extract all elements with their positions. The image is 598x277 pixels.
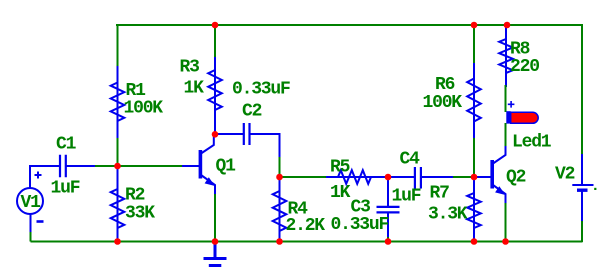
resistor R7 leads [473, 177, 475, 242]
wire Q2 emitter to bottom rail [505, 202, 507, 242]
wire left rail lower (R1 to C1 node) [117, 137, 119, 167]
wire C4 to node B [452, 176, 474, 178]
transistor Q2 emitter [493, 185, 506, 203]
svg-text:220: 220 [510, 57, 539, 77]
resistor R3 zigzag [208, 70, 222, 110]
wire C2 corner to R4 node [279, 156, 281, 178]
resistor R4 leads [279, 177, 281, 242]
svg-text:V1: V1 [21, 193, 42, 213]
svg-text:R2: R2 [125, 186, 145, 206]
svg-text:C1: C1 [56, 135, 77, 155]
transistor Q2 emitter arrow [495, 186, 505, 195]
wire bottom rail [31, 241, 583, 243]
transistor Q1 emitter [201, 175, 215, 194]
Led1 body [511, 112, 539, 123]
ground symbol [204, 242, 227, 266]
resistor R6 leads [473, 63, 475, 138]
resistor R5 leads [326, 176, 388, 178]
battery V2 short plate [577, 188, 588, 191]
resistor R6 zigzag [467, 79, 481, 122]
junction top R8 [504, 22, 511, 29]
capacitor C2 right lead [250, 134, 280, 157]
Led1 flange [506, 111, 510, 123]
svg-text:R7: R7 [430, 184, 450, 204]
resistor R2 zigzag [111, 189, 125, 228]
svg-text:Q2: Q2 [506, 168, 526, 188]
wire left rail upper (top rail to R1) [117, 24, 119, 67]
voltage source V1 circle [17, 188, 43, 214]
wire node A to Q1 base [118, 165, 184, 167]
transistor Q2 base lead [474, 176, 491, 178]
wire R3 top (top rail to R3) [214, 25, 216, 58]
svg-text:Led1: Led1 [512, 133, 552, 153]
svg-text:C2: C2 [242, 102, 262, 122]
junction R3/C2/Q1 collector [212, 131, 219, 138]
svg-text:0.33uF: 0.33uF [331, 215, 389, 235]
junction bottom R4 [276, 238, 283, 245]
resistor R4 zigzag [273, 191, 287, 231]
svg-text:R6: R6 [435, 75, 455, 95]
transistor Q1 collector [201, 134, 214, 154]
svg-text:1K: 1K [184, 79, 205, 99]
svg-text:33K: 33K [125, 204, 155, 224]
V1 minus sign [37, 220, 44, 223]
wire top rail [116, 24, 583, 26]
capacitor C3 plates [377, 207, 400, 213]
battery V2 top lead [581, 154, 583, 184]
svg-text:V2: V2 [555, 165, 575, 185]
junction C2/R4/R5 [276, 174, 283, 181]
resistor R8 leads [505, 25, 507, 87]
resistor R1 leads [117, 66, 119, 138]
wire Led1 to Q2 collector [505, 123, 507, 147]
capacitor C4 left lead [388, 176, 415, 178]
resistor R2 leads [117, 166, 119, 242]
svg-text:Q1: Q1 [216, 157, 237, 177]
wire R8 top lead from top rail [505, 25, 507, 40]
transistor Q1 base lead [182, 165, 199, 167]
svg-text:R3: R3 [180, 58, 200, 78]
resistor R1 zigzag [111, 83, 125, 122]
wire R6 to node B [473, 137, 475, 178]
svg-text:100K: 100K [423, 93, 463, 113]
battery V2 tick mark [594, 188, 596, 190]
capacitor C1 right lead [66, 165, 95, 167]
capacitor C1 plates [60, 155, 66, 177]
svg-text:R5: R5 [330, 158, 350, 178]
junction bottom C3 [385, 238, 392, 245]
resistor R8 zigzag [499, 39, 513, 73]
svg-text:1K: 1K [330, 183, 351, 203]
svg-text:1uF: 1uF [392, 187, 421, 207]
capacitor C2 plates [244, 123, 250, 145]
wire C3 to bottom rail [387, 236, 389, 242]
svg-text:2.2K: 2.2K [286, 216, 326, 236]
V1 plus sign [35, 172, 42, 179]
Led1 plus sign [508, 101, 515, 108]
junction node A (C1/R1/R2/base) [114, 163, 121, 170]
svg-text:0.33uF: 0.33uF [232, 80, 290, 100]
resistor R5 zigzag [338, 170, 371, 184]
junction node B (C4/R6/R7/Q2 base) [471, 174, 478, 181]
wire C1 to node A [94, 165, 118, 167]
capacitor C3 top lead [387, 177, 389, 206]
resistor R7 zigzag [467, 193, 481, 228]
capacitor C4 right lead [421, 176, 453, 178]
junction top R6 [471, 22, 478, 29]
wire R4 node to R5 [280, 176, 328, 178]
battery V2 long plate [572, 184, 593, 186]
wire V1 bottom corner [30, 232, 32, 242]
capacitor C2 left lead [215, 133, 243, 135]
svg-text:3.3K: 3.3K [428, 205, 468, 225]
V1 top lead [30, 166, 60, 188]
junction R5/C3/C4 [385, 174, 392, 181]
svg-text:1uF: 1uF [51, 179, 80, 199]
junction top R3 [212, 22, 219, 29]
wire Q1 emitter to bottom rail [214, 193, 216, 242]
junction bottom R7 [471, 238, 478, 245]
wire right rail upper (green) [581, 25, 583, 155]
capacitor C4 plates [415, 167, 421, 189]
resistor R3 leads [214, 57, 216, 134]
V1 bottom lead [30, 214, 32, 233]
junction bottom Q2 emitter [502, 238, 509, 245]
junction bottom R2 [114, 238, 121, 245]
Led1 top lead [505, 85, 507, 112]
transistor Q2 collector [493, 146, 506, 164]
battery V2 bottom lead [581, 191, 583, 221]
transistor Q1 emitter arrow [205, 177, 215, 186]
svg-text:C4: C4 [400, 150, 421, 170]
transistor Q1 base bar [199, 150, 203, 179]
capacitor C1 left lead [45, 165, 60, 167]
svg-text:100K: 100K [124, 99, 164, 119]
capacitor C3 bottom lead [387, 213, 389, 237]
wire right rail lower (green) [581, 220, 583, 242]
transistor Q2 base bar [490, 160, 494, 189]
wire R6 top (top rail down) [473, 25, 475, 64]
junction bottom ground [212, 238, 219, 245]
